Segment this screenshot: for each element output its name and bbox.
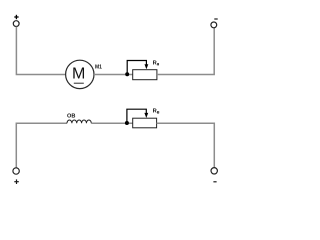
svg-text:M: M xyxy=(72,66,85,83)
terminal bottom-left xyxy=(13,168,19,174)
wire xyxy=(16,27,65,75)
svg-text:Rя: Rя xyxy=(153,61,160,67)
svg-text:Rв: Rв xyxy=(153,109,160,115)
node junction bottom xyxy=(125,121,129,125)
node minus top-right xyxy=(214,18,217,20)
node plus top-left xyxy=(14,15,18,19)
terminal top-left xyxy=(13,21,19,27)
wire xyxy=(94,74,133,76)
wire xyxy=(16,123,67,167)
wire xyxy=(91,122,132,124)
node junction top xyxy=(125,72,129,76)
svg-text:ОВ: ОВ xyxy=(67,113,75,119)
node minus bottom-right xyxy=(213,181,216,183)
svg-text:M1: M1 xyxy=(95,64,102,70)
terminal bottom-right xyxy=(211,168,217,174)
node plus bottom-left xyxy=(14,179,18,184)
resistor Ra (rheostat wiper) xyxy=(127,61,160,80)
inductor OB (field winding) xyxy=(67,113,91,123)
resistor Rb (rheostat wiper) xyxy=(127,109,160,128)
terminal top-right xyxy=(211,22,217,28)
motor M1 xyxy=(66,60,103,88)
wire xyxy=(157,28,214,75)
wire xyxy=(157,123,215,167)
